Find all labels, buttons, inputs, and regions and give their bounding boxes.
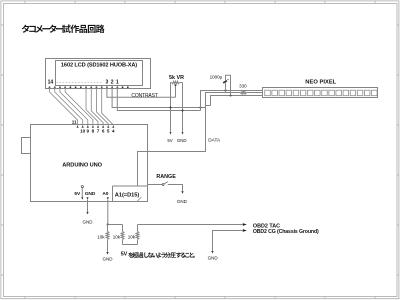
Arduino top pin labels 10 9 8 7 6 5 4 — [80, 129, 115, 134]
wire LCD data pin to Arduino pin 10 — [55, 87, 83, 125]
switch SW1 lever — [164, 182, 168, 184]
wire LCD control pin to Arduino pin 7 — [86, 87, 98, 125]
svg-text:GND: GND — [177, 199, 188, 204]
Arduino 5V pin open terminal — [81, 186, 83, 188]
svg-text:CONTRAST: CONTRAST — [131, 93, 157, 99]
svg-text:RANGE: RANGE — [156, 174, 176, 180]
svg-text:10k: 10k — [128, 234, 136, 239]
LCD module outer box — [46, 59, 151, 89]
wire GND riser to NeoPixel — [211, 96, 263, 106]
title タコメーター試作品回路 — [22, 25, 105, 33]
resistor R3 10k — [137, 239, 139, 244]
capacitor leads — [225, 83, 227, 90]
svg-text:10: 10 — [80, 129, 86, 134]
svg-text:10k: 10k — [113, 234, 121, 239]
svg-text:GND: GND — [208, 255, 219, 260]
wire R2 bottom to R3 bottom — [123, 244, 138, 246]
svg-text:5V: 5V — [167, 138, 172, 143]
wire junction to R2 — [108, 224, 123, 226]
OBD2 CG arrowhead — [243, 229, 247, 232]
wire pot left terminal to 5V — [170, 83, 172, 132]
ground symbol at range switch — [181, 191, 183, 194]
svg-text:5k VR: 5k VR — [169, 75, 184, 81]
LCD connector pin dots — [49, 86, 129, 88]
wire LCD data pin to Arduino pin 8 — [65, 87, 93, 125]
OBD2 TAC arrowhead — [243, 223, 247, 226]
svg-text:10k: 10k — [97, 234, 105, 239]
svg-text:4: 4 — [112, 129, 115, 134]
svg-text:GND: GND — [177, 138, 187, 143]
Arduino GND pin arrowhead — [86, 197, 88, 199]
wire pot right terminal to GND — [182, 83, 184, 132]
ground symbol below Arduino GND — [86, 212, 88, 215]
ground symbol below R1 — [106, 252, 108, 255]
svg-text:DATA: DATA — [208, 137, 221, 142]
wire R3 to OBD2 TAC — [138, 224, 243, 226]
junction GND at capacitor — [230, 95, 232, 97]
wire Arduino D15 DATA to NeoPixel DIN — [138, 93, 241, 187]
potentiometer wiper arrow — [174, 84, 176, 86]
LCD dashed separator — [57, 82, 102, 84]
svg-text:A1(=D15): A1(=D15) — [115, 193, 140, 199]
svg-text:5V: 5V — [121, 252, 128, 258]
svg-text:A0: A0 — [102, 191, 108, 197]
svg-text:OBD2 CG (Chassis Ground): OBD2 CG (Chassis Ground) — [253, 229, 319, 235]
svg-text:ARDUINO UNO: ARDUINO UNO — [62, 163, 102, 169]
wire Arduino A1 to range switch — [148, 184, 163, 186]
Arduino top pin arrowheads — [77, 125, 115, 127]
Arduino UNO body box U1 — [31, 125, 148, 202]
svg-text:1: 1 — [116, 79, 119, 85]
junction 5V bus to NeoPixel riser — [200, 107, 202, 109]
NeoPixel LED squares — [265, 90, 377, 96]
junction pot 5V — [170, 107, 172, 109]
wire LCD pin1 GND bus — [117, 87, 200, 110]
ground symbol OBD2 CG — [211, 251, 213, 254]
svg-text:2: 2 — [111, 79, 114, 85]
junction 5V at capacitor — [225, 90, 227, 92]
switch SW1 contact circle — [162, 184, 164, 186]
GND terminal arrow under pot — [181, 132, 183, 134]
resistor R1 10k — [107, 225, 109, 232]
wire 5V riser to NeoPixel — [201, 91, 263, 111]
wire LCD pin2 5V bus — [112, 87, 206, 107]
wire LCD data pin to Arduino pin 9 — [60, 87, 88, 125]
wire resistor to NeoPixel — [246, 92, 262, 94]
resistor R4 330 — [240, 91, 246, 94]
svg-text:3: 3 — [106, 79, 109, 85]
svg-text:1602 LCD (SD1602 HUOB-XA): 1602 LCD (SD1602 HUOB-XA) — [61, 63, 137, 69]
svg-text:7: 7 — [97, 129, 100, 134]
NeoPixel strip body — [263, 88, 378, 98]
wire LCD data pin to Arduino pin 11 — [50, 87, 78, 125]
junction A0 divider — [107, 224, 109, 226]
resistor R2 10k — [122, 225, 124, 232]
5V terminal arrow under pot — [169, 132, 171, 134]
capacitor C1 body — [223, 81, 227, 83]
svg-text:GND: GND — [103, 256, 114, 261]
wire LCD control pin to Arduino pin 4 — [102, 87, 114, 125]
svg-text:8: 8 — [92, 129, 95, 134]
svg-text:6: 6 — [102, 129, 105, 134]
wire Arduino GND pin down — [87, 200, 89, 212]
Arduino USB connector notch — [22, 138, 31, 154]
svg-text:9: 9 — [87, 129, 90, 134]
Arduino A0 pin arrowhead — [107, 197, 109, 199]
wire LCD pin3 contrast to potentiometer wiper — [107, 87, 176, 97]
svg-text:330: 330 — [239, 84, 247, 89]
wire chassis ground to OBD2 CG — [213, 231, 243, 251]
svg-text:11: 11 — [72, 120, 77, 125]
junction pot GND — [182, 110, 184, 112]
wire LCD control pin to Arduino pin 6 — [91, 87, 103, 125]
Arduino A1(=D15) pin cell — [113, 185, 148, 187]
svg-text:GND: GND — [85, 191, 96, 197]
svg-text:1000μ: 1000μ — [210, 75, 223, 80]
svg-text:5V: 5V — [74, 191, 81, 197]
svg-text:GND: GND — [83, 220, 94, 225]
wire switch to GND — [168, 185, 183, 192]
svg-text:14: 14 — [48, 79, 54, 85]
svg-text:NEO PIXEL: NEO PIXEL — [305, 79, 336, 85]
svg-text:5: 5 — [107, 129, 110, 134]
potentiometer 5k VR body — [171, 82, 172, 84]
wire LCD control pin to Arduino pin 5 — [96, 87, 108, 125]
wire Arduino A0 down to divider — [107, 200, 109, 225]
LCD display inner box 1602 LCD (SD1602 HUOB-XA) — [56, 61, 143, 86]
